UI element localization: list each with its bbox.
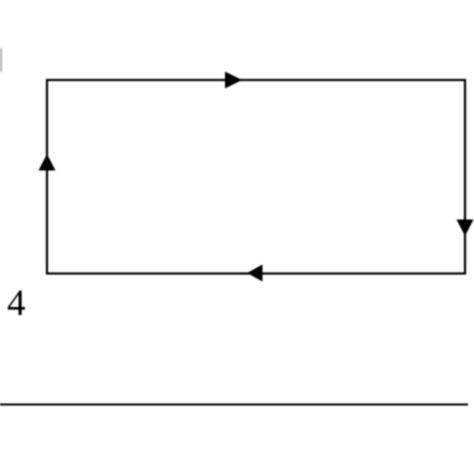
svg-text:4: 4	[7, 283, 26, 324]
arrowhead right (top side)	[225, 72, 242, 89]
arrowhead up (left side)	[39, 154, 56, 171]
arrowhead left (bottom side)	[247, 265, 263, 282]
arrowhead down (right side)	[457, 220, 474, 237]
wire rectangle loop	[47, 80, 465, 274]
bottom rule	[0, 404, 468, 406]
gray tick left edge	[0, 48, 2, 72]
